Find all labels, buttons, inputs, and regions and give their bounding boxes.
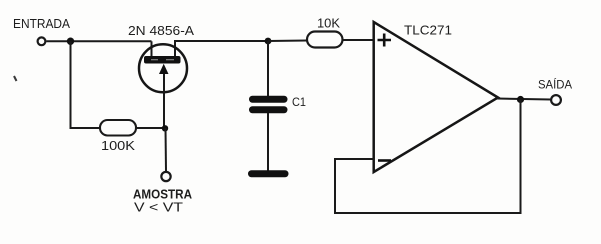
transistor Q1 body xyxy=(139,44,187,92)
op-amp U1 plus input marker xyxy=(378,34,392,47)
resistor R1 100K xyxy=(100,120,136,136)
svg-text:SAÍDA: SAÍDA xyxy=(538,77,572,92)
wire xyxy=(151,41,153,58)
svg-text:10K: 10K xyxy=(317,16,340,31)
wire (left branch down) xyxy=(71,41,101,128)
wire (feedback) xyxy=(335,100,521,214)
transistor Q1 gate arrow xyxy=(163,72,165,128)
resistor R2 10K xyxy=(307,32,343,48)
svg-text:C1: C1 xyxy=(292,95,306,109)
op-amp U1 minus input marker xyxy=(378,159,391,162)
wire xyxy=(136,127,165,129)
wire xyxy=(165,128,168,171)
capacitor C1 top plate xyxy=(249,96,288,103)
wire xyxy=(343,39,375,41)
terminal SAIDA xyxy=(551,95,561,105)
wire xyxy=(46,40,151,42)
wire xyxy=(175,41,268,57)
node junction (output) xyxy=(517,96,524,103)
svg-text:100K: 100K xyxy=(101,138,135,153)
stray scan mark xyxy=(14,76,17,81)
node junction (drain / C1 top) xyxy=(265,38,272,45)
wire xyxy=(268,40,307,43)
terminal ENTRADA xyxy=(38,37,46,45)
svg-text:ENTRADA: ENTRADA xyxy=(13,16,70,31)
wire xyxy=(267,113,269,171)
op-amp U1 body xyxy=(374,22,498,172)
svg-text:2N 4856-A: 2N 4856-A xyxy=(128,23,194,38)
capacitor C1 bottom plate xyxy=(249,106,288,113)
node junction (gate) xyxy=(162,125,168,131)
svg-text:TLC271: TLC271 xyxy=(404,23,452,38)
node junction (input) xyxy=(67,38,74,45)
terminal AMOSTRA xyxy=(161,172,170,181)
svg-text:V < VT: V < VT xyxy=(134,200,183,215)
wire xyxy=(267,41,269,96)
wire (output) xyxy=(497,99,551,100)
transistor Q1 channel bar xyxy=(144,56,181,64)
ground xyxy=(248,170,289,177)
